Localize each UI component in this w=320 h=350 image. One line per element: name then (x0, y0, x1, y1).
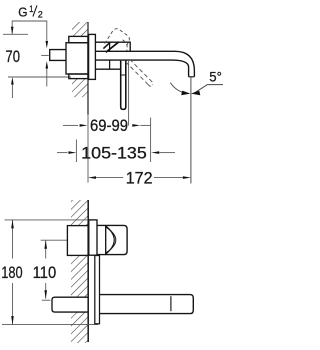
dim 110 line upper segment (45, 240, 47, 258)
spout top line with outer bend (96, 51, 195, 76)
dim 69-99 left arrowhead at wall face (80, 124, 88, 127)
lever wedge main diagonal (106, 42, 119, 52)
svg-text:G: G (18, 5, 27, 19)
handle grip dome arc outer (106, 226, 115, 254)
dim 110 top extension line (41, 239, 68, 241)
shared right extension line (150, 118, 152, 163)
spout swivel centreline (190, 78, 192, 184)
dim 105-135 left arrowhead (68, 151, 76, 154)
svg-text:1: 1 (29, 3, 33, 14)
svg-text:69-99: 69-99 (90, 117, 128, 135)
wall section hatching upper (bottom view) (71, 200, 88, 226)
dim 70 bottom arrow tail (11, 85, 13, 99)
dim 110 bottom extension line (42, 299, 51, 301)
housing right edge lower (109, 60, 111, 69)
dim 180 line lower segment (12, 283, 14, 325)
swivel arc left (170, 83, 185, 93)
dim 172 line left segment (96, 177, 123, 179)
wall section hatching upper (top view) (72, 22, 88, 37)
dim 69-99 right arrowhead (132, 124, 140, 127)
dashed lever open position line 1 (126, 62, 149, 85)
leader arrowhead down to top extension line (11, 27, 14, 35)
dim 180 top extension line (5, 219, 89, 221)
in-wall mounting block (handle) (67, 226, 88, 256)
wall section hatching lower (top view) (72, 79, 88, 98)
extension line from housing corner (128, 61, 130, 126)
dashed handle outline (raised position) (105, 29, 130, 45)
stub bottom arrowhead (up) (46, 61, 49, 69)
in-wall supply bar (spout) (52, 297, 88, 312)
wall face line (top view) (87, 22, 89, 115)
dim 180 top arrowhead (up) (11, 220, 14, 229)
lever handle (down position) (121, 61, 126, 110)
handle escutcheon (side) (89, 220, 97, 255)
dim 105-135 left tail line (57, 152, 68, 154)
dim 70 bottom arrowhead (up) (11, 77, 14, 85)
dim 172 line right segment (154, 177, 183, 179)
escutcheon plate (top view) (89, 34, 96, 79)
swivel arrowhead right (191, 91, 200, 96)
handle grip back edge (105, 226, 107, 255)
spout escutcheon strip (side) (95, 256, 100, 324)
dim 69-99 left tail line (63, 124, 78, 126)
spout bar (side) (100, 295, 194, 314)
stub centre tick (41, 54, 49, 56)
handle housing top outline (96, 42, 131, 51)
5 degree leader line (194, 85, 223, 94)
wall face line (bottom view) (87, 200, 89, 342)
dim 172 right arrowhead (183, 176, 191, 179)
dim 110 line lower segment (45, 283, 47, 299)
dim 105-135 right arrowhead (151, 151, 159, 154)
concealed in-wall body (66, 43, 88, 74)
dim 110 top arrowhead (up) (44, 240, 47, 249)
fraction slash (33, 5, 37, 16)
lever wedge small diagonal (103, 42, 110, 48)
dim 70 top extension line (3, 33, 28, 35)
svg-text:105-135: 105-135 (81, 145, 147, 163)
handle body (side) (97, 225, 127, 254)
spout outlet mark (170, 296, 172, 311)
wall section hatching middle (bottom view) (71, 256, 88, 298)
dashed handle arc right of cap (123, 40, 128, 51)
G1/2 leader line (12, 21, 47, 41)
dim 180 line upper segment (12, 220, 14, 259)
dim 172 left arrowhead (88, 176, 96, 179)
union nut top (69, 36, 88, 42)
svg-text:5°: 5° (209, 69, 222, 85)
dim 70 bottom extension line (8, 76, 71, 78)
dim 180 bottom extension line (2, 324, 98, 326)
svg-text:180: 180 (1, 264, 22, 282)
handle grip dome arc inner (106, 227, 116, 253)
G1/2 supply stub (50, 50, 66, 61)
wall section hatching lower (bottom view) (71, 312, 88, 343)
dashed lever open position line 2 (130, 59, 153, 82)
dim 105-135 right tail line (159, 152, 175, 154)
svg-text:2: 2 (38, 9, 43, 20)
union nut bottom (69, 74, 88, 79)
stub bottom arrow tail (46, 69, 48, 87)
dashed lever open position end cap (148, 84, 152, 86)
lever collar line (121, 74, 126, 76)
wall back face extension line (75, 140, 77, 163)
housing right edge upper (109, 42, 111, 51)
dim 69-99 right tail line (140, 124, 150, 126)
svg-text:172: 172 (126, 170, 153, 188)
housing bottom line (96, 68, 121, 70)
spout bottom line with inner bend (96, 60, 189, 77)
dim 110 bottom arrowhead (down) (44, 290, 47, 299)
swivel arrowhead left (181, 91, 190, 96)
svg-text:110: 110 (33, 264, 57, 282)
extension line continuing wall face down to 172 dim (87, 115, 89, 183)
leader arrowhead down to stub top (46, 41, 49, 49)
spout outlet tip (189, 76, 195, 78)
dim 180 bottom arrowhead (down) (11, 316, 14, 325)
svg-text:70: 70 (5, 48, 20, 66)
